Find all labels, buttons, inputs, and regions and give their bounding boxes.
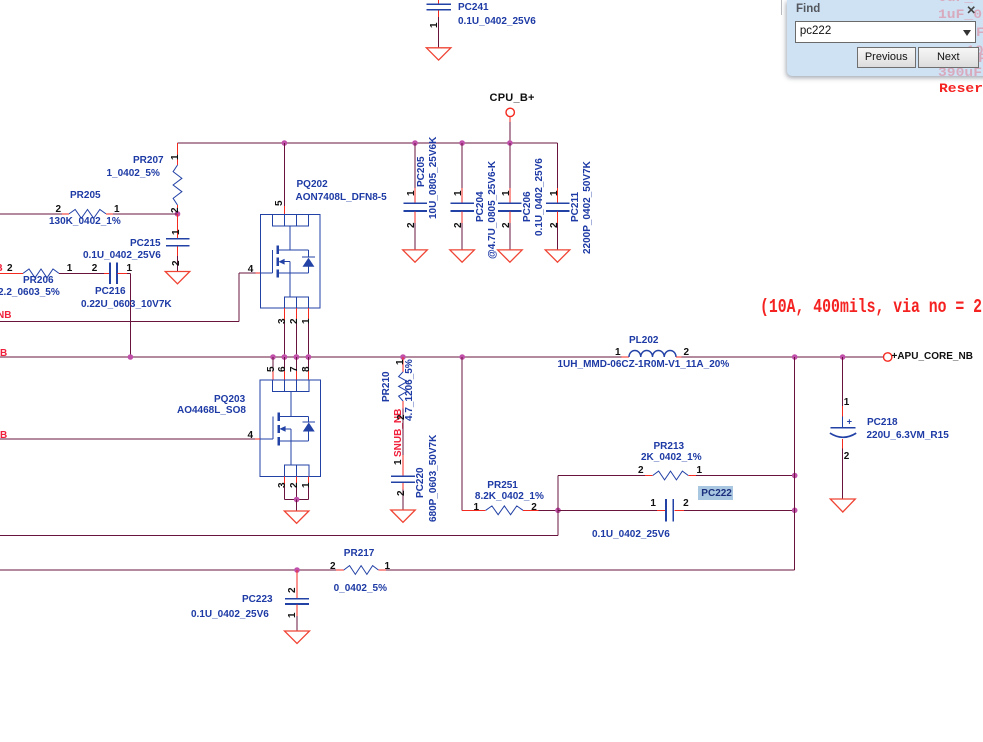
- svg-text:+: +: [847, 416, 852, 426]
